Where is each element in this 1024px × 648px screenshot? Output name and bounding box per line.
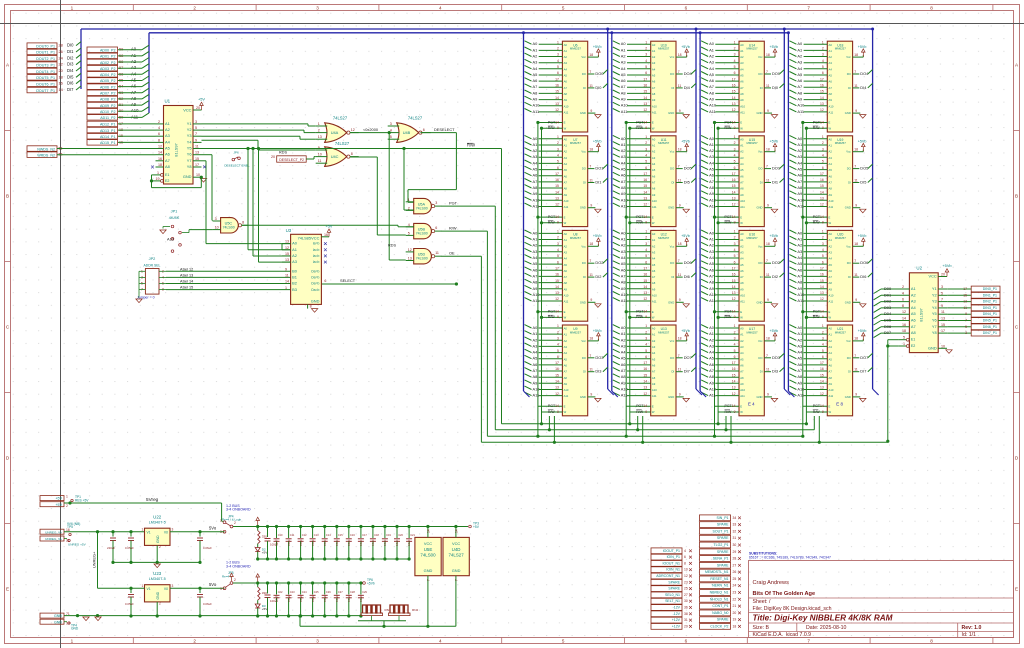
svg-text:A6: A6 — [829, 80, 833, 84]
svg-text:16: 16 — [732, 178, 736, 182]
svg-text:A7: A7 — [533, 179, 538, 184]
svg-text:DI3: DI3 — [595, 369, 601, 374]
svg-text:18: 18 — [589, 337, 593, 341]
svg-text:8: 8 — [930, 639, 933, 644]
svg-text:11: 11 — [854, 84, 858, 88]
svg-text:12: 12 — [643, 392, 647, 396]
svg-text:A1: A1 — [829, 49, 833, 53]
svg-text:SELT_N1: SELT_N1 — [665, 599, 680, 603]
svg-text:A0: A0 — [533, 136, 539, 141]
svg-text:A3: A3 — [740, 156, 744, 160]
svg-text:2: 2 — [557, 141, 559, 145]
svg-text:DI4: DI4 — [684, 85, 691, 90]
svg-text:A7: A7 — [652, 181, 656, 185]
svg-text:7: 7 — [589, 70, 591, 74]
svg-text:C14: C14 — [326, 533, 331, 537]
svg-text:6: 6 — [423, 128, 425, 132]
svg-text:9: 9 — [734, 126, 736, 130]
svg-text:DO2: DO2 — [595, 260, 603, 265]
svg-text:Vcc: Vcc — [758, 150, 763, 154]
svg-text:C10: C10 — [278, 533, 283, 537]
svg-text:-12V: -12V — [673, 612, 681, 616]
svg-text:14: 14 — [732, 285, 736, 289]
svg-text:A6: A6 — [652, 80, 656, 84]
svg-text:A1: A1 — [911, 286, 916, 291]
svg-text:A3: A3 — [564, 61, 568, 65]
svg-text:0.1uF: 0.1uF — [395, 539, 399, 546]
svg-text:Craig Andrews: Craig Andrews — [753, 580, 790, 586]
svg-text:6: 6 — [158, 132, 160, 136]
svg-text:A11: A11 — [652, 205, 657, 209]
svg-text:VCC: VCC — [311, 236, 319, 241]
svg-text:A2: A2 — [829, 150, 833, 154]
svg-text:DO7: DO7 — [684, 355, 692, 360]
svg-text:A10: A10 — [652, 294, 657, 298]
svg-text:1: 1 — [645, 135, 647, 139]
svg-text:E: E — [564, 405, 566, 409]
svg-text:A4: A4 — [740, 162, 744, 166]
svg-text:A3: A3 — [911, 299, 916, 304]
svg-text:File: DigiKey 8K Design.kicad_: File: DigiKey 8K Design.kicad_sch — [753, 606, 832, 612]
svg-text:Vcc: Vcc — [670, 150, 675, 154]
svg-text:A3: A3 — [709, 154, 714, 159]
svg-text:9: 9 — [557, 126, 559, 130]
svg-text:SEL0_N1: SEL0_N1 — [665, 593, 680, 597]
svg-text:U2: U2 — [916, 265, 922, 270]
svg-text:E: E — [652, 405, 654, 409]
svg-text:MM6257: MM6257 — [570, 236, 582, 240]
svg-text:9: 9 — [767, 204, 769, 208]
svg-text:W: W — [740, 410, 743, 414]
svg-text:+5Vb: +5Vb — [942, 263, 951, 268]
svg-text:DIN5_P1: DIN5_P1 — [983, 319, 997, 323]
svg-text:DIN6_P1: DIN6_P1 — [983, 325, 997, 329]
svg-text:A1: A1 — [709, 331, 714, 336]
svg-text:IOIN_N1: IOIN_N1 — [666, 568, 680, 572]
svg-text:A3: A3 — [292, 259, 297, 264]
svg-text:A0: A0 — [829, 43, 833, 47]
svg-text:AD05_P2: AD05_P2 — [100, 79, 116, 83]
svg-text:7: 7 — [678, 165, 680, 169]
svg-text:2: 2 — [193, 639, 196, 644]
svg-text:GND: GND — [668, 111, 674, 115]
svg-text:13: 13 — [555, 102, 559, 106]
svg-text:A11: A11 — [564, 300, 569, 304]
svg-text:A4: A4 — [621, 66, 627, 71]
svg-text:4: 4 — [645, 343, 647, 347]
svg-text:GND: GND — [845, 300, 851, 304]
svg-text:D01: D01 — [884, 292, 891, 297]
svg-text:GND: GND — [54, 614, 62, 618]
svg-text:16: 16 — [59, 81, 63, 86]
svg-text:11: 11 — [766, 84, 770, 88]
svg-text:DO6: DO6 — [684, 260, 692, 265]
svg-text:A10: A10 — [740, 294, 745, 298]
svg-text:18: 18 — [854, 242, 858, 246]
svg-text:A3: A3 — [829, 250, 833, 254]
svg-text:Vcc: Vcc — [670, 339, 675, 343]
svg-text:MM6257: MM6257 — [658, 236, 670, 240]
svg-text:A4: A4 — [621, 350, 627, 355]
svg-text:220uF: 220uF — [107, 546, 115, 550]
svg-text:KiCad E.D.A. kicad 7.0.9: KiCad E.D.A. kicad 7.0.9 — [753, 632, 812, 638]
svg-text:+5Vb: +5Vb — [858, 45, 867, 49]
svg-text:13: 13 — [195, 151, 199, 155]
svg-text:12: 12 — [643, 297, 647, 301]
svg-text:A2: A2 — [740, 55, 744, 59]
svg-text:8: 8 — [902, 304, 904, 308]
svg-text:A4: A4 — [533, 255, 539, 260]
svg-text:DIN3_P1: DIN3_P1 — [983, 306, 997, 310]
svg-text:B: B — [1015, 194, 1018, 199]
svg-text:A5: A5 — [621, 72, 626, 77]
svg-text:21: 21 — [733, 604, 737, 608]
svg-text:A4: A4 — [740, 67, 744, 71]
svg-text:DI3: DI3 — [67, 62, 74, 67]
svg-text:A7: A7 — [740, 181, 744, 185]
svg-text:A2: A2 — [564, 150, 568, 154]
svg-text:DO1: DO1 — [595, 166, 603, 171]
svg-text:7: 7 — [766, 354, 768, 358]
svg-text:DI1: DI1 — [595, 180, 601, 185]
svg-text:A9: A9 — [829, 193, 833, 197]
svg-text:22: 22 — [59, 62, 63, 67]
svg-text:A5: A5 — [709, 356, 714, 361]
svg-text:DI: DI — [848, 275, 851, 279]
svg-text:3: 3 — [734, 53, 736, 57]
svg-text:3: 3 — [822, 242, 824, 246]
svg-text:A8: A8 — [740, 281, 744, 285]
svg-text:A9: A9 — [740, 98, 744, 102]
svg-text:A2: A2 — [709, 337, 714, 342]
svg-text:14: 14 — [643, 96, 647, 100]
svg-text:2: 2 — [557, 47, 559, 51]
svg-text:2: 2 — [158, 120, 160, 124]
svg-text:18: 18 — [678, 242, 682, 246]
svg-text:15: 15 — [643, 90, 647, 94]
svg-text:A0: A0 — [564, 327, 568, 331]
svg-text:12: 12 — [408, 248, 412, 252]
svg-text:5: 5 — [734, 254, 736, 258]
svg-text:0.1uF: 0.1uF — [371, 539, 375, 546]
svg-text:DI6: DI6 — [860, 274, 866, 279]
svg-text:A9: A9 — [652, 98, 656, 102]
svg-text:6: 6 — [645, 260, 647, 264]
svg-text:A6: A6 — [829, 364, 833, 368]
svg-text:A0: A0 — [652, 137, 656, 141]
svg-text:ASel 12: ASel 12 — [180, 267, 193, 271]
svg-text:AD07_P2: AD07_P2 — [100, 92, 116, 96]
svg-text:16: 16 — [643, 178, 647, 182]
svg-text:18: 18 — [678, 53, 682, 57]
svg-text:A0: A0 — [797, 325, 803, 330]
svg-text:V0: V0 — [164, 587, 168, 591]
svg-text:15: 15 — [643, 279, 647, 283]
svg-text:7: 7 — [854, 70, 856, 74]
svg-text:A3: A3 — [533, 249, 538, 254]
svg-text:A9: A9 — [533, 286, 538, 291]
svg-text:MM6257: MM6257 — [570, 47, 582, 51]
svg-text:1: 1 — [157, 171, 159, 175]
svg-text:+12V: +12V — [672, 624, 681, 628]
svg-text:14: 14 — [902, 317, 906, 321]
svg-text:DI: DI — [671, 86, 674, 90]
svg-text:A11: A11 — [797, 298, 804, 303]
svg-text:Ia=b: Ia=b — [313, 260, 320, 264]
svg-text:A4: A4 — [709, 255, 715, 260]
svg-text:18: 18 — [589, 53, 593, 57]
svg-text:A1: A1 — [621, 142, 626, 147]
svg-text:3-4 ONBOARD: 3-4 ONBOARD — [226, 564, 251, 568]
svg-text:RES +5V: RES +5V — [75, 499, 89, 503]
svg-text:A10: A10 — [652, 104, 657, 108]
svg-text:3: 3 — [734, 147, 736, 151]
svg-text:AD00_P2: AD00_P2 — [100, 49, 116, 53]
svg-text:C27: C27 — [338, 590, 343, 594]
svg-text:A3: A3 — [533, 343, 538, 348]
svg-text:MM6257: MM6257 — [746, 47, 758, 51]
svg-text:C18: C18 — [374, 533, 379, 537]
svg-text:7: 7 — [589, 259, 591, 263]
svg-text:W: W — [564, 221, 567, 225]
svg-text:7: 7 — [454, 579, 458, 581]
svg-text:D05: D05 — [884, 318, 891, 323]
svg-text:E: E — [740, 215, 742, 219]
svg-text:DO5: DO5 — [684, 166, 692, 171]
svg-text:E 4: E 4 — [748, 402, 755, 407]
svg-text:11: 11 — [678, 179, 682, 183]
svg-text:1: 1 — [557, 324, 559, 328]
svg-text:A7: A7 — [829, 86, 833, 90]
svg-text:A4: A4 — [652, 351, 656, 355]
svg-text:7: 7 — [589, 165, 591, 169]
svg-text:A2: A2 — [797, 54, 802, 59]
svg-text:DI: DI — [583, 275, 586, 279]
svg-text:A4: A4 — [829, 351, 833, 355]
svg-text:+5Vb: +5Vb — [858, 140, 867, 144]
svg-text:11: 11 — [854, 368, 858, 372]
svg-text:A6: A6 — [564, 269, 568, 273]
svg-text:A8: A8 — [564, 281, 568, 285]
svg-text:4: 4 — [734, 248, 736, 252]
svg-text:A11: A11 — [564, 394, 569, 398]
svg-text:A8: A8 — [533, 280, 538, 285]
svg-text:8: 8 — [684, 561, 686, 565]
svg-text:W: W — [740, 221, 743, 225]
svg-text:14: 14 — [643, 310, 647, 314]
svg-text:A9: A9 — [829, 98, 833, 102]
svg-text:AD11_P2: AD11_P2 — [100, 116, 115, 120]
svg-text:15: 15 — [555, 184, 559, 188]
svg-text:A1: A1 — [533, 142, 538, 147]
svg-text:5: 5 — [645, 349, 647, 353]
svg-text:6: 6 — [435, 226, 437, 230]
svg-text:A5: A5 — [621, 261, 626, 266]
svg-text:6: 6 — [645, 71, 647, 75]
svg-text:A0: A0 — [652, 232, 656, 236]
svg-text:A2: A2 — [621, 243, 626, 248]
svg-text:C12: C12 — [302, 533, 307, 537]
svg-text:GND: GND — [668, 206, 674, 210]
svg-text:AD15_P1: AD15_P1 — [100, 141, 116, 145]
svg-text:1: 1 — [822, 135, 824, 139]
svg-text:A1: A1 — [564, 333, 568, 337]
svg-text:31: 31 — [684, 618, 688, 622]
svg-text:3: 3 — [557, 337, 559, 341]
svg-text:5: 5 — [822, 349, 824, 353]
svg-text:18: 18 — [589, 242, 593, 246]
svg-text:4: 4 — [734, 153, 736, 157]
svg-text:12: 12 — [732, 297, 736, 301]
svg-text:GND: GND — [183, 174, 192, 179]
svg-text:6: 6 — [822, 166, 824, 170]
svg-text:A2: A2 — [533, 148, 538, 153]
svg-text:14: 14 — [643, 120, 647, 124]
svg-text:GND: GND — [580, 206, 586, 210]
svg-text:2: 2 — [734, 141, 736, 145]
svg-text:SELECT: SELECT — [340, 278, 356, 283]
svg-text:E2: E2 — [165, 179, 169, 183]
svg-text:7: 7 — [854, 165, 856, 169]
svg-text:GND: GND — [756, 395, 762, 399]
svg-text:A3: A3 — [829, 61, 833, 65]
svg-text:0.1uF: 0.1uF — [299, 539, 303, 546]
svg-text:A11: A11 — [652, 300, 657, 304]
svg-text:A5: A5 — [829, 263, 833, 267]
svg-text:9: 9 — [734, 221, 736, 225]
svg-text:13: 13 — [732, 102, 736, 106]
svg-text:A6: A6 — [533, 267, 538, 272]
svg-text:A8: A8 — [564, 92, 568, 96]
svg-text:A6: A6 — [829, 174, 833, 178]
svg-text:A7: A7 — [533, 368, 538, 373]
svg-text:+5Vb: +5Vb — [593, 329, 602, 333]
svg-text:A9: A9 — [797, 97, 802, 102]
svg-text:ADRCONT_N1: ADRCONT_N1 — [656, 574, 680, 578]
svg-text:GND: GND — [156, 591, 160, 599]
svg-text:A8: A8 — [740, 92, 744, 96]
svg-text:A5: A5 — [740, 74, 744, 78]
svg-text:9: 9 — [965, 312, 967, 316]
svg-text:ASel 13: ASel 13 — [180, 273, 193, 277]
svg-text:UNREG_V+: UNREG_V+ — [45, 530, 62, 534]
svg-text:D04: D04 — [884, 311, 892, 316]
svg-text:A2: A2 — [709, 148, 714, 153]
svg-text:U3: U3 — [286, 228, 292, 233]
svg-text:13: 13 — [643, 386, 647, 390]
svg-text:A4: A4 — [911, 305, 917, 310]
svg-text:A1: A1 — [740, 333, 744, 337]
svg-text:A6: A6 — [621, 267, 626, 272]
svg-text:A6: A6 — [740, 364, 744, 368]
svg-text:A3: A3 — [652, 250, 656, 254]
svg-text:Vcc: Vcc — [846, 339, 851, 343]
svg-text:DO: DO — [582, 167, 586, 171]
svg-text:+5Vb: +5Vb — [681, 329, 690, 333]
svg-text:2: 2 — [734, 47, 736, 51]
svg-text:3: 3 — [822, 147, 824, 151]
svg-text:18: 18 — [902, 329, 906, 333]
svg-text:A8: A8 — [564, 376, 568, 380]
svg-text:17: 17 — [643, 172, 647, 176]
svg-text:5: 5 — [822, 254, 824, 258]
svg-text:29: 29 — [684, 624, 688, 628]
svg-text:A11: A11 — [829, 111, 834, 115]
svg-text:15: 15 — [555, 279, 559, 283]
svg-text:R/W: R/W — [636, 315, 644, 319]
svg-text:A7: A7 — [652, 370, 656, 374]
svg-text:A5: A5 — [709, 167, 714, 172]
svg-text:1: 1 — [734, 135, 736, 139]
svg-text:Oa=b: Oa=b — [311, 282, 319, 286]
svg-text:17: 17 — [820, 267, 824, 271]
svg-text:A2: A2 — [533, 243, 538, 248]
svg-text:TLG2_P1: TLG2_P1 — [714, 543, 729, 547]
svg-text:A6: A6 — [621, 173, 626, 178]
svg-text:GND: GND — [845, 206, 851, 210]
svg-text:SPARE: SPARE — [717, 550, 729, 554]
svg-text:A2: A2 — [652, 150, 656, 154]
svg-text:DI: DI — [848, 181, 851, 185]
svg-text:A2: A2 — [740, 150, 744, 154]
svg-text:A4: A4 — [797, 350, 803, 355]
svg-text:A2: A2 — [165, 127, 170, 132]
svg-text:A3: A3 — [165, 133, 170, 138]
svg-text:DOUT3_P1: DOUT3_P1 — [36, 63, 55, 67]
svg-text:A2: A2 — [564, 339, 568, 343]
svg-text:W: W — [652, 126, 655, 130]
svg-text:A9: A9 — [533, 97, 538, 102]
svg-text:A11: A11 — [533, 393, 540, 398]
svg-text:+5Vb: +5Vb — [593, 140, 602, 144]
svg-text:12: 12 — [285, 246, 289, 250]
svg-text:A8: A8 — [652, 187, 656, 191]
svg-text:A7: A7 — [533, 273, 538, 278]
svg-text:A0: A0 — [292, 241, 298, 246]
svg-text:AD13_P1: AD13_P1 — [100, 129, 116, 133]
svg-text:A8: A8 — [621, 374, 626, 379]
svg-text:18: 18 — [589, 148, 593, 152]
svg-text:3: 3 — [645, 242, 647, 246]
svg-text:+5V: +5V — [473, 525, 480, 529]
svg-text:6: 6 — [685, 6, 688, 11]
svg-text:CONT_P1: CONT_P1 — [712, 604, 728, 608]
svg-text:GND: GND — [71, 627, 79, 631]
svg-text:C29: C29 — [362, 590, 367, 594]
svg-text:A9: A9 — [829, 382, 833, 386]
svg-text:17: 17 — [555, 267, 559, 271]
svg-text:A3: A3 — [709, 60, 714, 65]
svg-text:12: 12 — [555, 108, 559, 112]
svg-text:A3: A3 — [564, 156, 568, 160]
svg-text:A3: A3 — [740, 250, 744, 254]
svg-text:A9: A9 — [740, 287, 744, 291]
svg-text:A4: A4 — [652, 257, 656, 261]
svg-text:A5: A5 — [709, 261, 714, 266]
svg-text:3: 3 — [172, 528, 174, 532]
svg-text:Oa=b: Oa=b — [311, 288, 319, 292]
svg-text:A6: A6 — [797, 78, 802, 83]
svg-text:UNREG_V+: UNREG_V+ — [45, 537, 62, 541]
svg-text:GND: GND — [756, 300, 762, 304]
svg-text:Title: Digi-Key NIBBLER 4K/8K: Title: Digi-Key NIBBLER 4K/8K RAM — [753, 614, 893, 623]
svg-text:17: 17 — [555, 361, 559, 365]
svg-text:A3: A3 — [709, 343, 714, 348]
svg-text:11: 11 — [854, 179, 858, 183]
svg-text:14: 14 — [820, 404, 824, 408]
svg-text:C25: C25 — [314, 590, 319, 594]
svg-text:A5: A5 — [533, 72, 538, 77]
